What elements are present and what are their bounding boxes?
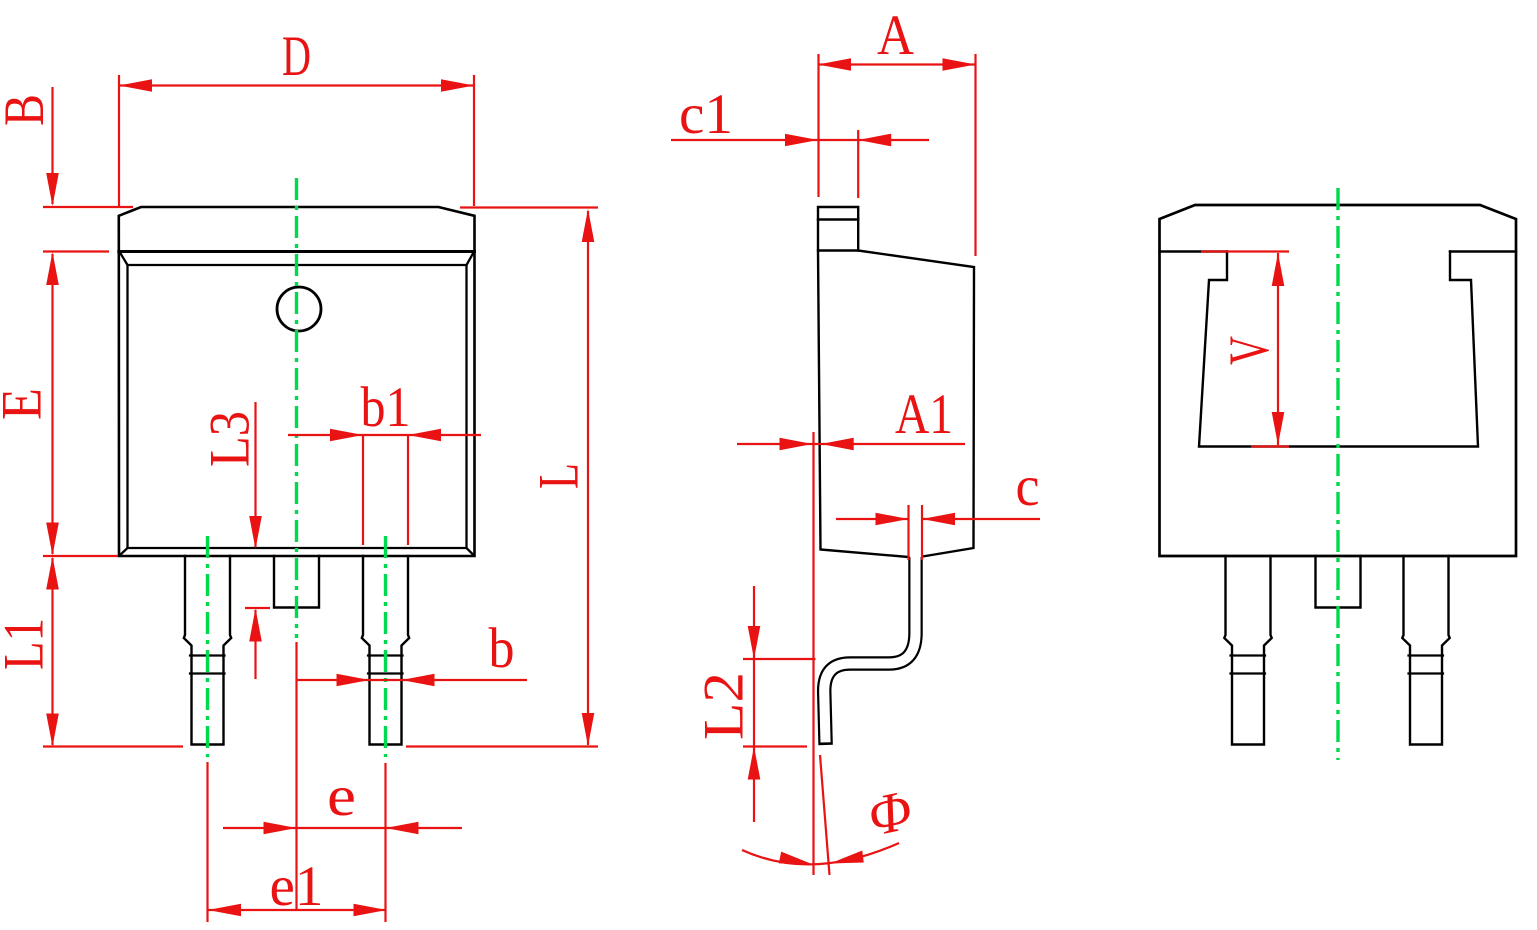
dim D line — [119, 84, 474, 86]
dim e center extension — [295, 642, 297, 911]
svg-text:c1: c1 — [679, 83, 733, 146]
front left lead centerline — [206, 536, 209, 757]
arrow e1 left — [208, 904, 241, 917]
dim L3 line upper — [254, 402, 256, 547]
arrow D left — [119, 79, 152, 92]
arrow c right — [876, 513, 909, 526]
dim A line — [818, 63, 976, 65]
lead plane reference line — [812, 432, 814, 875]
dim e1 line — [208, 909, 387, 911]
back body face line left — [1160, 250, 1228, 252]
arrow V down — [1272, 412, 1285, 445]
dim L2 tick bottom — [743, 745, 807, 747]
dim L2 tick top — [743, 658, 816, 660]
dim L1 extension bottom — [43, 745, 183, 747]
dim b1 extension left — [362, 435, 364, 545]
front right lead centerline — [384, 536, 387, 757]
arrow L1 up — [46, 557, 59, 590]
dim E line — [51, 254, 53, 554]
front left lead tick 1 — [190, 654, 225, 656]
arrow b right — [337, 674, 370, 687]
svg-text:L1: L1 — [0, 618, 56, 670]
dim e line — [223, 827, 462, 829]
angle phi arc — [742, 843, 899, 864]
arrow phi right — [779, 852, 813, 865]
dim V tick bottom — [1251, 445, 1289, 447]
svg-text:e: e — [327, 765, 356, 828]
dim e1 left extension — [206, 762, 208, 922]
dim B extension at tab top — [43, 206, 133, 208]
front left lead — [184, 556, 231, 745]
dim D extension right — [473, 75, 475, 206]
dim c line right — [922, 518, 1040, 520]
dim A extension right — [974, 54, 976, 256]
dim c extension left — [907, 505, 909, 560]
dim L2 line — [753, 586, 755, 822]
dim V line — [1277, 253, 1279, 445]
arrow L3 down — [249, 516, 262, 549]
arrow A right — [943, 58, 976, 71]
svg-text:L: L — [528, 463, 591, 489]
arrow L1 down — [46, 714, 59, 747]
dim b1 line — [288, 434, 481, 436]
svg-text:A1: A1 — [895, 383, 953, 446]
svg-text:A: A — [877, 4, 914, 67]
arrow L2 up — [748, 747, 761, 780]
dim c1 line — [671, 139, 929, 141]
arrow D right — [441, 79, 474, 92]
arrow L up — [582, 209, 595, 242]
dim L3 line lower — [254, 610, 256, 679]
back left lead — [1224, 556, 1271, 745]
dim b line — [297, 679, 528, 681]
back center stub — [1316, 556, 1361, 608]
front main centerline — [295, 178, 298, 638]
front body corner bevel top-left — [120, 253, 128, 266]
back left lead tick 2 — [1231, 672, 1266, 674]
svg-text:b: b — [489, 617, 515, 680]
arrow phi left — [830, 851, 864, 864]
front right lead tick 1 — [368, 654, 403, 656]
back body outer outline — [1160, 205, 1517, 556]
dim D extension left — [118, 75, 120, 206]
dim c1 extension right — [857, 130, 859, 198]
back recess window — [1199, 252, 1478, 447]
arrow e left — [386, 822, 419, 835]
svg-text:B: B — [0, 94, 56, 126]
arrow c1 right — [785, 134, 818, 147]
arrow b left — [402, 674, 435, 687]
svg-text:V: V — [1218, 336, 1281, 365]
front body corner bevel top-right — [467, 253, 474, 266]
dim c extension right — [921, 505, 923, 560]
dim E extension bottom — [43, 555, 118, 557]
arrow E down — [46, 523, 59, 556]
front body face line (tab bottom) — [119, 250, 475, 253]
front left lead tick 2 — [190, 672, 225, 674]
svg-text:E: E — [0, 388, 54, 420]
arrow e1 right — [354, 904, 387, 917]
arrow E up — [46, 252, 59, 285]
front center stub — [274, 556, 319, 608]
front body outer outline with chamfered tab top — [119, 207, 475, 556]
dim L extension top — [460, 206, 598, 208]
dim V tick top — [1201, 250, 1289, 252]
side body outline — [818, 251, 974, 558]
arrow L2 down — [748, 626, 761, 659]
arrow c left — [922, 513, 955, 526]
dim c line left — [836, 518, 909, 520]
back body face line right — [1450, 250, 1516, 252]
arrow V up — [1272, 253, 1285, 286]
arrow A left — [818, 58, 851, 71]
arrow B down — [46, 173, 59, 206]
front right lead tick 2 — [368, 672, 403, 674]
arrow b1 right — [330, 429, 363, 442]
side bent lead (outline via stroke trick) — [824, 557, 915, 745]
svg-text:D: D — [282, 25, 311, 88]
dim L1 line — [51, 558, 53, 745]
dim B extension at face — [43, 250, 109, 252]
back left lead tick 1 — [1231, 654, 1266, 656]
arrow A1 right — [780, 438, 813, 451]
dim L3 tick — [245, 607, 270, 609]
dim e right extension — [384, 763, 386, 922]
svg-text:e1: e1 — [270, 855, 324, 918]
svg-text:c: c — [1016, 455, 1040, 518]
dim A extension left — [817, 54, 819, 197]
front body corner bevel bottom-right — [467, 548, 474, 555]
svg-text:L3: L3 — [199, 411, 262, 467]
arrow L down — [582, 713, 595, 746]
arrow L3 up — [249, 609, 262, 642]
side small top tab inner line — [818, 218, 858, 220]
dim L extension bottom — [406, 745, 598, 747]
front body inner rectangle — [128, 265, 467, 548]
front right lead — [362, 556, 409, 745]
back right lead tick 2 — [1409, 672, 1444, 674]
back main centerline — [1336, 188, 1339, 760]
dim A1 line — [737, 443, 965, 445]
arrow A1 left — [821, 438, 854, 451]
back right lead — [1402, 556, 1449, 745]
front body corner bevel bottom-left — [120, 548, 128, 555]
side small top tab — [818, 207, 858, 251]
svg-text:b1: b1 — [361, 376, 411, 439]
arrow c1 left — [858, 134, 891, 147]
dim L line — [587, 211, 589, 745]
back right lead tick 1 — [1409, 654, 1444, 656]
arrow e right — [264, 822, 297, 835]
dim b1 extension right — [407, 435, 409, 545]
front mounting hole — [277, 287, 321, 331]
angle phi slant line — [820, 755, 830, 875]
dim B line — [51, 87, 53, 204]
svg-text:L2: L2 — [693, 672, 756, 740]
arrow b1 left — [408, 429, 441, 442]
